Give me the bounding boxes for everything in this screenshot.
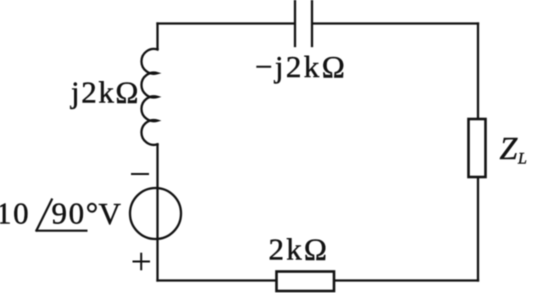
svg-text:2kΩ: 2kΩ (269, 232, 330, 267)
svg-text:90°: 90° (52, 196, 100, 231)
impedance ZL box (469, 119, 486, 177)
wire left rail upper (156, 24, 158, 50)
wire top-right segment (313, 22, 478, 24)
voltage source V1 (130, 188, 181, 239)
svg-text:L: L (517, 151, 527, 168)
minus terminal of source (132, 173, 148, 175)
resistor R1 2kOhm (277, 272, 335, 292)
wire left rail lower (156, 144, 158, 280)
wire top-left segment (158, 22, 295, 24)
svg-text:Z: Z (500, 130, 519, 166)
wire right rail upper (477, 24, 479, 119)
capacitor C1 -j2kOhm plates (295, 0, 312, 46)
svg-text:V: V (99, 196, 122, 231)
svg-text:10: 10 (0, 196, 30, 231)
angle symbol of source label (37, 200, 87, 231)
wire bottom-right segment (335, 279, 478, 281)
plus terminal of source (134, 254, 150, 270)
wire right rail lower (477, 178, 479, 281)
inductor L1 j2kOhm (141, 49, 157, 145)
wire bottom-left segment (158, 279, 277, 281)
svg-text:−j2kΩ: −j2kΩ (255, 49, 347, 84)
svg-text:j2kΩ: j2kΩ (70, 75, 140, 110)
